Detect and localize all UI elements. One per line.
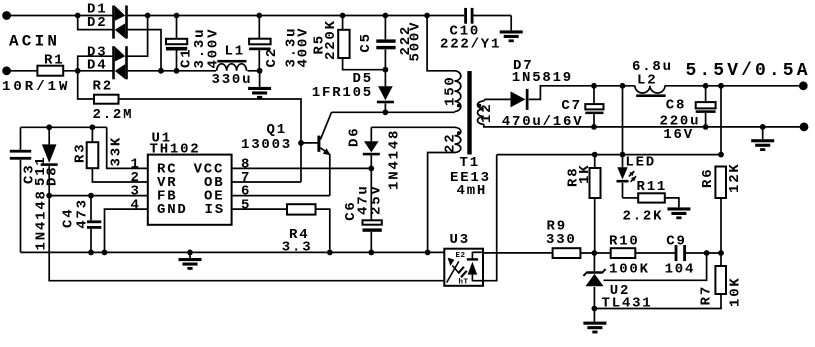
svg-text:C7: C7	[561, 98, 581, 114]
svg-text:5: 5	[241, 197, 251, 213]
svg-text:33K: 33K	[108, 136, 124, 167]
svg-text:D6: D6	[346, 127, 362, 147]
svg-text:R7: R7	[699, 285, 715, 305]
svg-text:D4: D4	[87, 57, 107, 73]
svg-text:E2: E2	[456, 252, 466, 260]
svg-text:10R/1W: 10R/1W	[2, 79, 70, 95]
svg-text:C2: C2	[264, 47, 280, 67]
svg-text:1N5819: 1N5819	[512, 70, 573, 86]
svg-text:R3: R3	[73, 143, 89, 163]
svg-text:2.2M: 2.2M	[93, 107, 134, 123]
svg-text:104: 104	[665, 261, 696, 277]
svg-text:U3: U3	[450, 232, 470, 248]
svg-text:D8: D8	[45, 166, 61, 186]
svg-text:12: 12	[479, 103, 495, 123]
svg-text:LED: LED	[625, 155, 656, 171]
svg-text:330: 330	[546, 232, 577, 248]
svg-text:IS: IS	[205, 202, 225, 218]
svg-text:1FR105: 1FR105	[312, 85, 373, 101]
svg-text:L2: L2	[637, 73, 657, 89]
svg-text:400V: 400V	[205, 28, 221, 69]
svg-text:1N4148: 1N4148	[34, 189, 50, 250]
svg-text:hT: hT	[459, 279, 469, 287]
svg-text:ACIN: ACIN	[9, 33, 60, 51]
svg-text:D2: D2	[87, 15, 107, 31]
svg-text:Q1: Q1	[267, 122, 287, 138]
svg-text:22: 22	[443, 133, 459, 153]
svg-text:GND: GND	[157, 202, 188, 218]
svg-text:4mH: 4mH	[457, 183, 488, 199]
svg-text:TL431: TL431	[602, 296, 653, 312]
svg-text:470u/16V: 470u/16V	[502, 114, 584, 130]
svg-text:R10: R10	[609, 234, 640, 250]
svg-text:R11: R11	[637, 179, 668, 195]
svg-text:C8: C8	[666, 97, 686, 113]
svg-text:R2: R2	[93, 79, 113, 95]
svg-text:5.5V/0.5A: 5.5V/0.5A	[686, 61, 811, 81]
svg-text:12K: 12K	[727, 162, 743, 193]
svg-text:1K: 1K	[577, 164, 593, 184]
svg-text:10K: 10K	[727, 276, 743, 307]
svg-text:1N4148: 1N4148	[386, 129, 402, 190]
svg-text:R1: R1	[44, 53, 64, 69]
svg-text:500V: 500V	[408, 21, 424, 62]
svg-text:150: 150	[443, 75, 459, 106]
svg-text:13003: 13003	[241, 137, 292, 153]
svg-text:2.2K: 2.2K	[623, 209, 664, 225]
svg-text:L1: L1	[225, 43, 245, 59]
svg-text:3.3: 3.3	[282, 240, 313, 256]
svg-text:TH102: TH102	[150, 141, 201, 157]
svg-text:100K: 100K	[609, 261, 650, 277]
svg-text:C5: C5	[358, 32, 374, 52]
svg-text:220K: 220K	[323, 19, 339, 60]
svg-text:222/Y1: 222/Y1	[440, 37, 501, 53]
svg-text:4: 4	[131, 197, 141, 213]
svg-text:T1: T1	[460, 155, 480, 171]
svg-text:C9: C9	[666, 234, 686, 250]
svg-text:473: 473	[74, 198, 90, 229]
svg-text:25V: 25V	[369, 184, 385, 215]
svg-text:16V: 16V	[663, 127, 694, 143]
svg-text:400V: 400V	[295, 27, 311, 68]
svg-text:R6: R6	[700, 168, 716, 188]
svg-text:330u: 330u	[212, 72, 253, 88]
